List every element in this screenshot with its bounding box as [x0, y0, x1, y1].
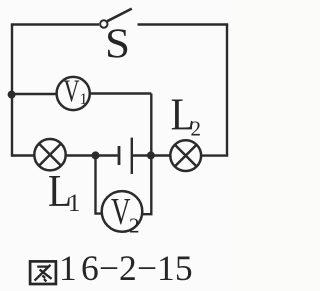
svg-text:2: 2 — [129, 214, 140, 238]
wire V1 branch left — [12, 93, 57, 95]
switch S pivot and blade — [100, 9, 132, 28]
node A junction dot on left wire — [8, 91, 16, 99]
svg-text:2: 2 — [191, 116, 202, 140]
wire V1 down to node B — [150, 94, 152, 156]
wire V2 branch left — [94, 155, 102, 213]
wire L2 to right side — [201, 154, 228, 156]
wire left side — [11, 25, 13, 157]
battery negative plate — [118, 146, 121, 165]
wire top-right segment — [138, 23, 229, 25]
svg-text:1: 1 — [68, 190, 81, 217]
svg-text:V: V — [111, 191, 131, 233]
battery positive plate — [131, 138, 133, 174]
wire right side — [226, 25, 228, 156]
wire V2 branch right — [142, 155, 153, 214]
svg-text:V: V — [64, 74, 80, 109]
voltmeter U1 V1 — [57, 77, 90, 110]
wire main row left — [12, 154, 35, 156]
lamp L1 — [34, 139, 65, 170]
wire top-left segment — [11, 23, 99, 25]
voltmeter U2 V2 — [102, 191, 143, 232]
wire V1 branch right — [90, 92, 152, 94]
wire battery to node B — [133, 154, 170, 156]
lamp L2 — [170, 140, 201, 171]
wire L1 to battery — [66, 154, 118, 156]
svg-text:1: 1 — [80, 91, 88, 108]
node B junction dot battery right — [147, 151, 155, 159]
svg-text:S: S — [105, 22, 130, 68]
node C junction dot battery left — [92, 151, 100, 159]
caption character 图 — [30, 261, 56, 284]
